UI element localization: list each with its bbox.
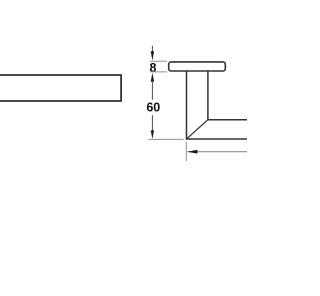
stem right line [207, 72, 209, 120]
extension line (bar top) [150, 60, 167, 62]
down arrow to handle bottom [151, 130, 154, 139]
svg-text:60: 60 [146, 101, 160, 115]
miter diagonal [187, 120, 208, 139]
vertical extension line below corner [185, 142, 187, 161]
down arrow to top of bar [151, 51, 154, 60]
bottom dimension line (cropped right) [187, 151, 248, 153]
extension line (bar bottom) [150, 71, 167, 73]
dim line lower segment [151, 115, 153, 132]
arm bottom line [186, 138, 248, 140]
svg-text:8: 8 [150, 61, 157, 75]
handle bar front view (left rectangle, cropped at left edge) [0, 75, 121, 101]
up arrow to bottom of bar [151, 73, 154, 82]
left arrow of bottom dimension [187, 150, 197, 154]
dim line middle segment [151, 81, 153, 100]
rose/flange bar (side view top) [169, 62, 226, 71]
stem left line [186, 72, 188, 140]
extension line (handle bottom) [149, 138, 184, 140]
dim line top segment [151, 46, 153, 53]
arm top line [208, 119, 248, 121]
